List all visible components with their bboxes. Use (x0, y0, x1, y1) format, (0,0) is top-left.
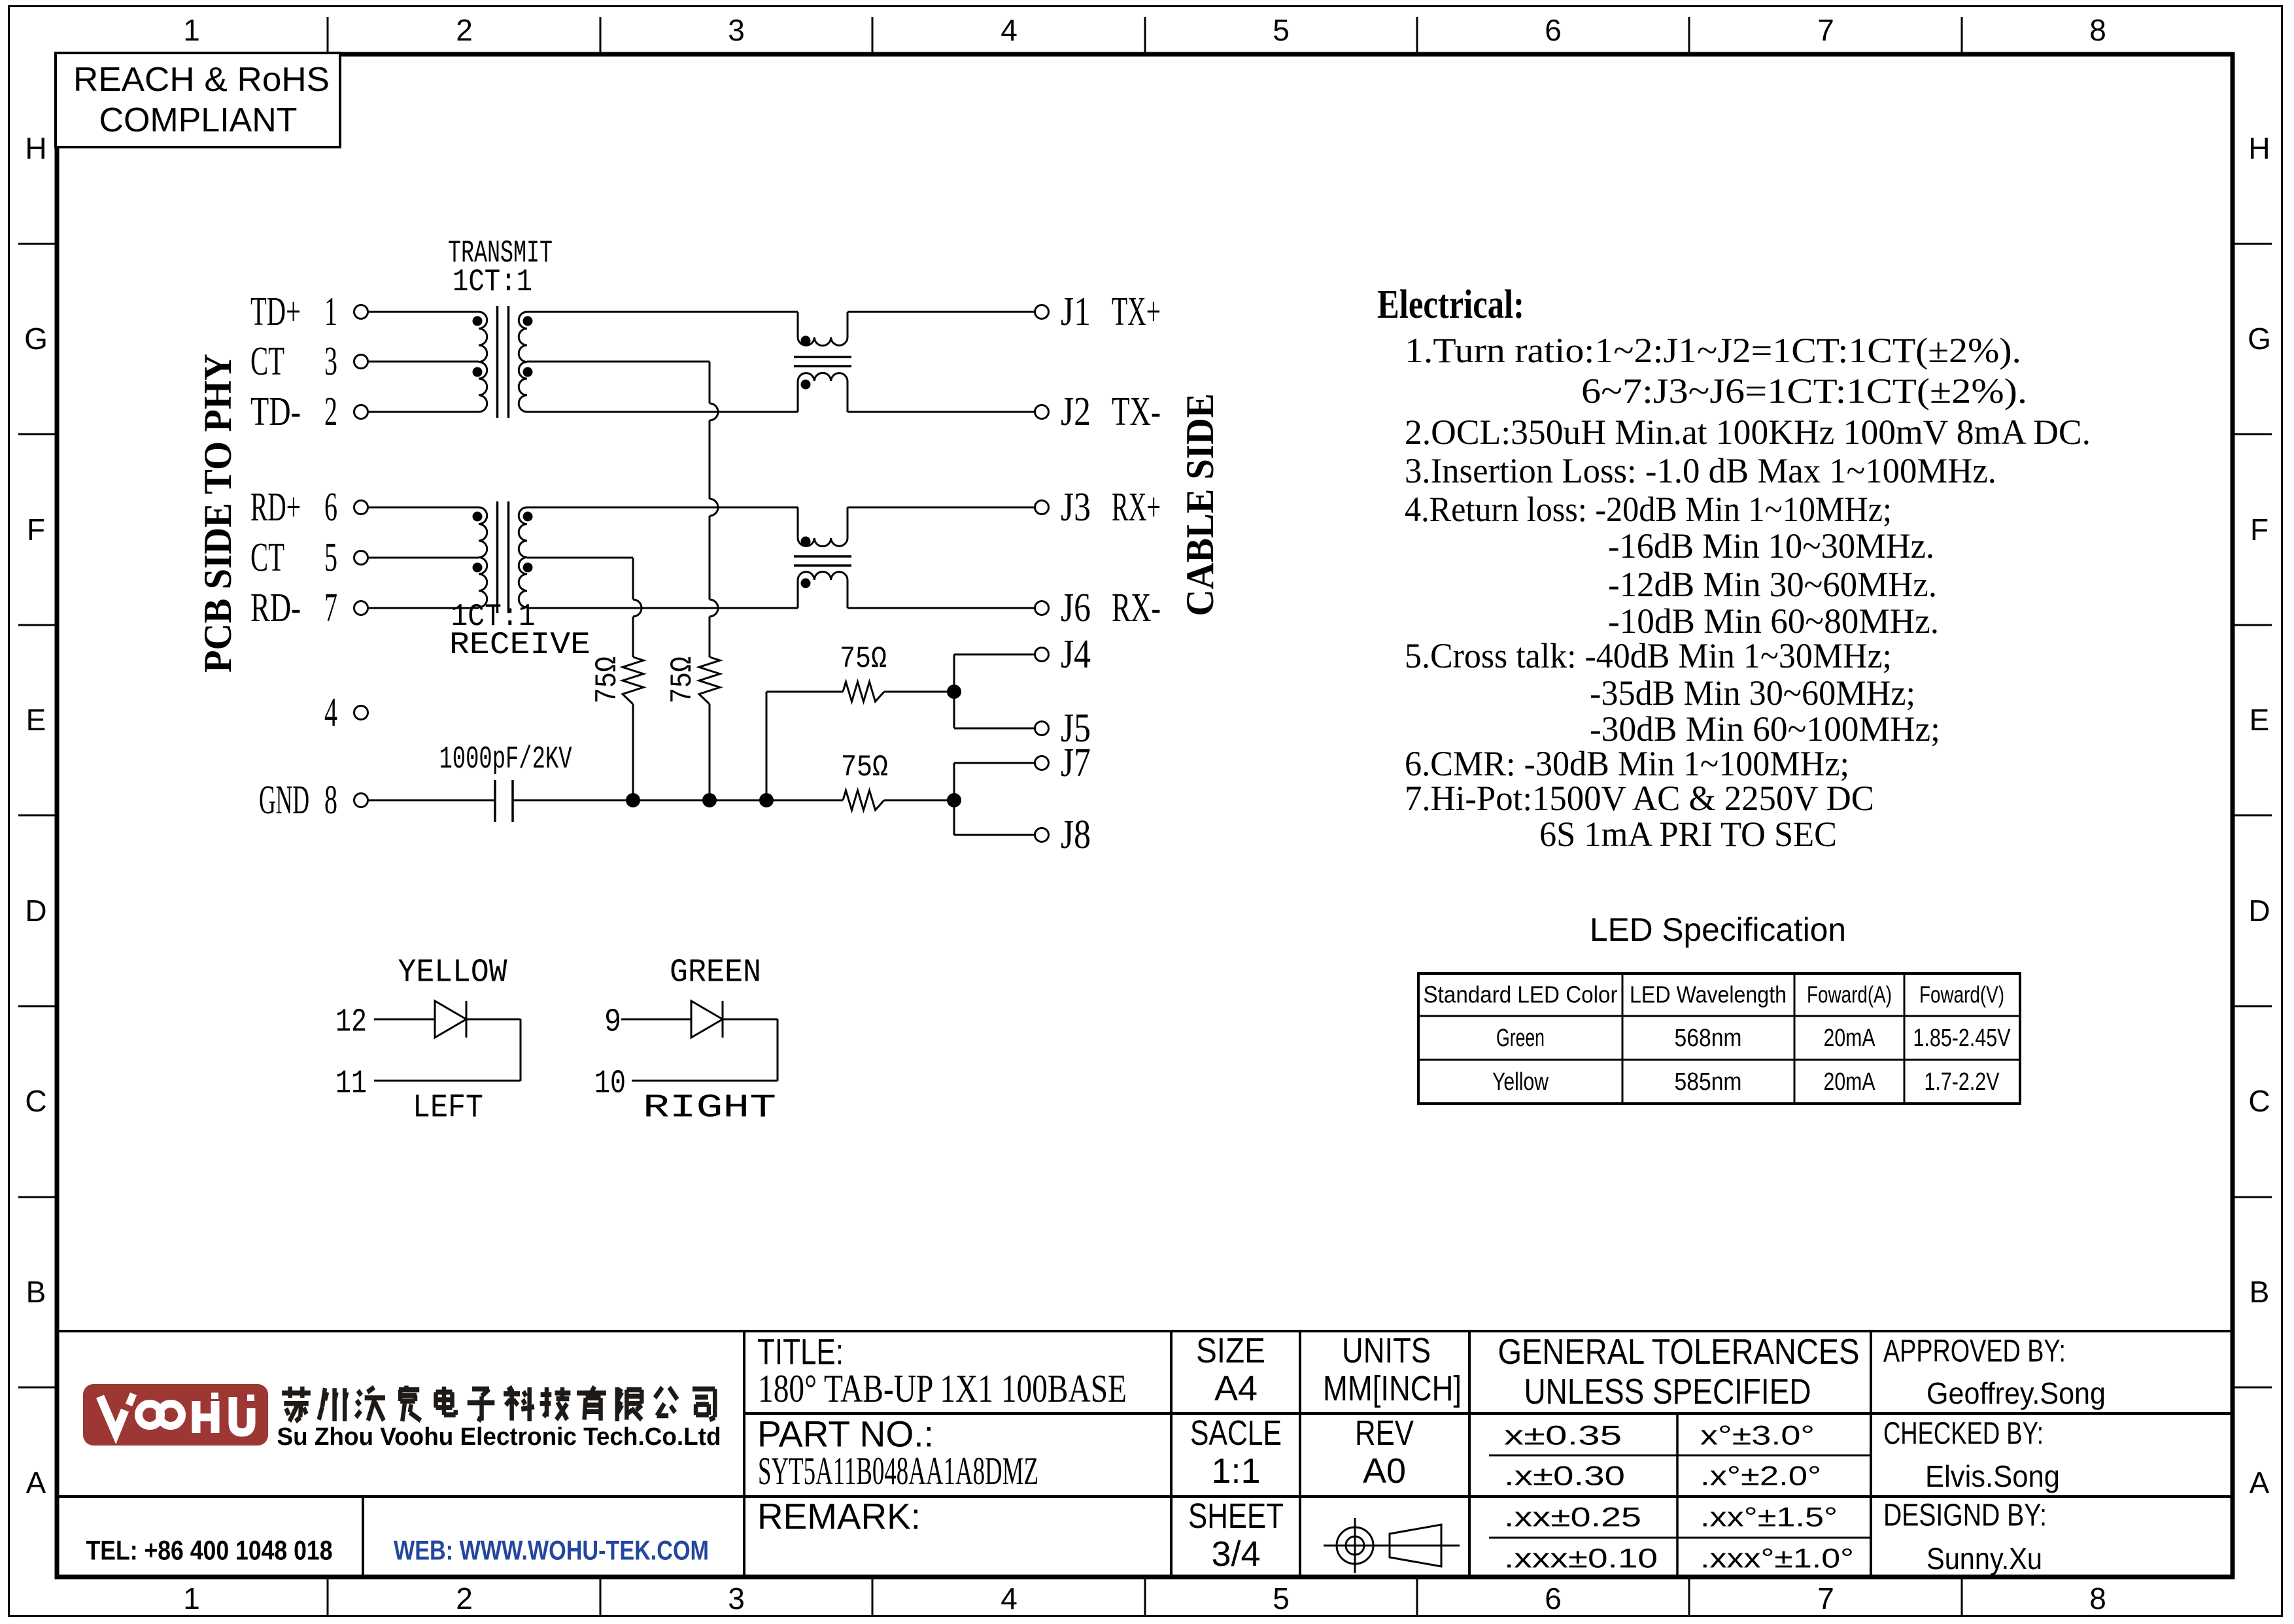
svg-text:20mA: 20mA (1824, 1068, 1876, 1096)
svg-text:3: 3 (728, 13, 745, 47)
svg-text:D: D (2248, 894, 2270, 928)
svg-text:C: C (2248, 1084, 2270, 1118)
svg-text:75Ω: 75Ω (666, 656, 700, 703)
svg-text:.xx°±1.5°: .xx°±1.5° (1700, 1502, 1838, 1532)
svg-text:RECEIVE: RECEIVE (449, 628, 591, 663)
svg-text:APPROVED BY:: APPROVED BY: (1883, 1334, 2066, 1369)
svg-text:TD+: TD+ (250, 290, 301, 334)
svg-text:-35dB Min 30~60MHz;: -35dB Min 30~60MHz; (1590, 673, 1915, 713)
svg-text:TD-: TD- (250, 390, 301, 434)
svg-text:7.Hi-Pot:1500V AC & 2250V DC: 7.Hi-Pot:1500V AC & 2250V DC (1405, 779, 1874, 818)
svg-text:75Ω: 75Ω (841, 751, 888, 785)
svg-text:A4: A4 (1214, 1369, 1258, 1408)
svg-text:COMPLIANT: COMPLIANT (99, 101, 298, 139)
svg-text:568nm: 568nm (1675, 1024, 1742, 1052)
svg-text:RX+: RX+ (1112, 485, 1161, 530)
svg-text:6: 6 (324, 485, 337, 530)
svg-text:RX-: RX- (1112, 586, 1161, 630)
svg-text:2.OCL:350uH Min.at 100KHz 100m: 2.OCL:350uH Min.at 100KHz 100mV 8mA DC. (1405, 413, 2091, 452)
svg-text:TITLE:: TITLE: (757, 1331, 844, 1372)
svg-text:4: 4 (1001, 13, 1018, 47)
svg-text:WEB: WWW.WOHU-TEK.COM: WEB: WWW.WOHU-TEK.COM (394, 1535, 709, 1566)
svg-text:B: B (26, 1275, 46, 1309)
svg-text:CHECKED BY:: CHECKED BY: (1883, 1417, 2044, 1451)
svg-text:RIGHT: RIGHT (643, 1090, 776, 1127)
svg-text:UNLESS SPECIFIED: UNLESS SPECIFIED (1524, 1371, 1811, 1412)
svg-text:A0: A0 (1363, 1451, 1406, 1491)
svg-text:5: 5 (324, 535, 337, 580)
svg-text:J7: J7 (1061, 741, 1091, 785)
svg-text:A: A (26, 1466, 46, 1500)
svg-text:TEL: +86 400 1048 018: TEL: +86 400 1048 018 (86, 1535, 333, 1566)
svg-text:1.85-2.45V: 1.85-2.45V (1913, 1024, 2012, 1052)
svg-text:J1: J1 (1061, 290, 1091, 334)
svg-text:4: 4 (324, 690, 337, 735)
svg-text:3.Insertion Loss: -1.0 dB Max: 3.Insertion Loss: -1.0 dB Max 1~100MHz. (1405, 451, 1996, 490)
svg-text:1CT:1: 1CT:1 (453, 265, 532, 300)
svg-text:2: 2 (324, 390, 337, 434)
svg-text:6: 6 (1545, 1582, 1562, 1616)
svg-text:.xxx±0.10: .xxx±0.10 (1504, 1543, 1658, 1574)
svg-text:PCB SIDE TO PHY: PCB SIDE TO PHY (196, 354, 239, 673)
svg-text:DESIGND BY:: DESIGND BY: (1883, 1498, 2047, 1533)
svg-text:E: E (26, 703, 46, 737)
svg-text:7: 7 (324, 586, 337, 630)
svg-text:Geoffrey.Song: Geoffrey.Song (1926, 1376, 2106, 1410)
svg-text:10: 10 (594, 1066, 626, 1103)
svg-text:H: H (2248, 131, 2270, 165)
svg-text:3: 3 (324, 339, 337, 384)
svg-text:3/4: 3/4 (1211, 1534, 1260, 1574)
svg-text:Elvis.Song: Elvis.Song (1925, 1459, 2060, 1493)
svg-text:TX+: TX+ (1112, 290, 1161, 334)
svg-text:TX-: TX- (1112, 390, 1161, 434)
svg-text:J6: J6 (1061, 586, 1091, 630)
svg-text:1:1: 1:1 (1211, 1451, 1260, 1491)
svg-text:RD-: RD- (250, 586, 301, 630)
svg-text:1: 1 (183, 1582, 200, 1616)
svg-text:SACLE: SACLE (1190, 1413, 1282, 1453)
svg-text:Sunny.Xu: Sunny.Xu (1926, 1542, 2042, 1576)
svg-text:2: 2 (456, 13, 473, 47)
svg-text:UNITS: UNITS (1342, 1331, 1431, 1370)
svg-text:4.Return loss: -20dB Min 1~10M: 4.Return loss: -20dB Min 1~10MHz; (1405, 490, 1892, 529)
svg-text:CABLE SIDE: CABLE SIDE (1178, 394, 1222, 617)
svg-text:2: 2 (456, 1582, 473, 1616)
svg-text:5: 5 (1273, 13, 1290, 47)
svg-text:7: 7 (1817, 13, 1834, 47)
svg-text:D: D (25, 894, 46, 928)
svg-text:MM[INCH]: MM[INCH] (1323, 1369, 1462, 1408)
svg-text:GENERAL TOLERANCES: GENERAL TOLERANCES (1498, 1331, 1860, 1372)
svg-text:8: 8 (2089, 13, 2106, 47)
svg-text:C: C (25, 1084, 46, 1118)
svg-text:x±0.35: x±0.35 (1504, 1420, 1622, 1451)
svg-text:1.7-2.2V: 1.7-2.2V (1925, 1068, 2000, 1096)
svg-text:11: 11 (335, 1066, 367, 1103)
svg-text:J8: J8 (1061, 813, 1091, 857)
svg-text:REACH & RoHS: REACH & RoHS (73, 61, 330, 99)
svg-text:8: 8 (324, 778, 337, 822)
svg-text:LEFT: LEFT (413, 1090, 483, 1127)
svg-text:6S 1mA PRI TO SEC: 6S 1mA PRI TO SEC (1539, 815, 1837, 854)
svg-text:9: 9 (604, 1004, 621, 1041)
svg-text:Electrical:: Electrical: (1377, 282, 1524, 327)
svg-text:GND: GND (259, 778, 309, 822)
svg-text:B: B (2250, 1275, 2270, 1309)
svg-text:J3: J3 (1061, 485, 1091, 530)
svg-text:75Ω: 75Ω (840, 642, 887, 676)
svg-text:SIZE: SIZE (1196, 1331, 1265, 1370)
svg-text:6.CMR: -30dB Min 1~100MHz;: 6.CMR: -30dB Min 1~100MHz; (1405, 744, 1849, 783)
svg-text:PART NO.:: PART NO.: (757, 1413, 934, 1455)
svg-text:E: E (2250, 703, 2270, 737)
svg-text:585nm: 585nm (1675, 1068, 1742, 1096)
svg-text:LED Specification: LED Specification (1590, 911, 1846, 948)
svg-text:G: G (2248, 322, 2271, 356)
svg-text:SHEET: SHEET (1188, 1497, 1284, 1536)
svg-text:G: G (24, 322, 48, 356)
svg-text:Foward(V): Foward(V) (1919, 981, 2004, 1008)
svg-text:-30dB Min 60~100MHz;: -30dB Min 60~100MHz; (1590, 709, 1940, 749)
svg-text:Standard LED Color: Standard LED Color (1424, 981, 1618, 1008)
svg-text:1: 1 (183, 13, 200, 47)
svg-text:6: 6 (1545, 13, 1562, 47)
svg-text:.xxx°±1.0°: .xxx°±1.0° (1700, 1543, 1854, 1574)
svg-text:-10dB Min 60~80MHz.: -10dB Min 60~80MHz. (1608, 601, 1939, 641)
svg-text:x°±3.0°: x°±3.0° (1700, 1420, 1815, 1451)
svg-text:SYT5A11B048AA1A8DMZ: SYT5A11B048AA1A8DMZ (758, 1449, 1038, 1493)
svg-text:F: F (27, 513, 45, 547)
svg-text:.xx±0.25: .xx±0.25 (1504, 1502, 1641, 1532)
svg-text:8: 8 (2089, 1582, 2106, 1616)
svg-text:20mA: 20mA (1824, 1024, 1876, 1052)
svg-text:YELLOW: YELLOW (398, 955, 507, 992)
svg-text:-16dB Min 10~30MHz.: -16dB Min 10~30MHz. (1608, 526, 1934, 566)
svg-text:J2: J2 (1061, 390, 1091, 434)
svg-text:CT: CT (250, 535, 284, 580)
svg-text:.x°±2.0°: .x°±2.0° (1700, 1461, 1821, 1491)
svg-text:5.Cross talk: -40dB Min 1~30MH: 5.Cross talk: -40dB Min 1~30MHz; (1405, 636, 1892, 675)
svg-text:Su Zhou Voohu Electronic Tech.: Su Zhou Voohu Electronic Tech.Co.Ltd (277, 1423, 721, 1451)
svg-text:CT: CT (250, 339, 284, 384)
svg-text:F: F (2250, 513, 2268, 547)
svg-text:3: 3 (728, 1582, 745, 1616)
svg-text:Yellow: Yellow (1492, 1068, 1549, 1096)
svg-text:LED Wavelength: LED Wavelength (1630, 981, 1787, 1008)
svg-text:H: H (25, 131, 46, 165)
svg-text:1000pF/2KV: 1000pF/2KV (439, 742, 572, 777)
svg-text:REV: REV (1355, 1413, 1414, 1453)
svg-text:1.Turn ratio:1~2:J1~J2=1CT:1CT: 1.Turn ratio:1~2:J1~J2=1CT:1CT(±2%). (1405, 331, 2021, 370)
svg-text:RD+: RD+ (250, 485, 301, 530)
svg-text:75Ω: 75Ω (591, 656, 625, 703)
svg-text:-12dB Min 30~60MHz.: -12dB Min 30~60MHz. (1608, 565, 1937, 604)
svg-text:7: 7 (1817, 1582, 1834, 1616)
svg-text:Green: Green (1496, 1024, 1545, 1052)
svg-text:12: 12 (335, 1004, 367, 1041)
svg-text:GREEN: GREEN (670, 955, 761, 992)
svg-text:5: 5 (1273, 1582, 1290, 1616)
svg-text:Foward(A): Foward(A) (1807, 981, 1892, 1008)
svg-text:1: 1 (324, 290, 337, 334)
svg-text:.x±0.30: .x±0.30 (1504, 1461, 1625, 1491)
svg-text:REMARK:: REMARK: (757, 1496, 921, 1537)
svg-text:6~7:J3~J6=1CT:1CT(±2%).: 6~7:J3~J6=1CT:1CT(±2%). (1581, 371, 2027, 411)
svg-text:J4: J4 (1061, 632, 1091, 677)
svg-text:4: 4 (1001, 1582, 1018, 1616)
svg-text:A: A (2250, 1466, 2270, 1500)
svg-text:180° TAB-UP 1X1 100BASE: 180° TAB-UP 1X1 100BASE (758, 1367, 1127, 1410)
